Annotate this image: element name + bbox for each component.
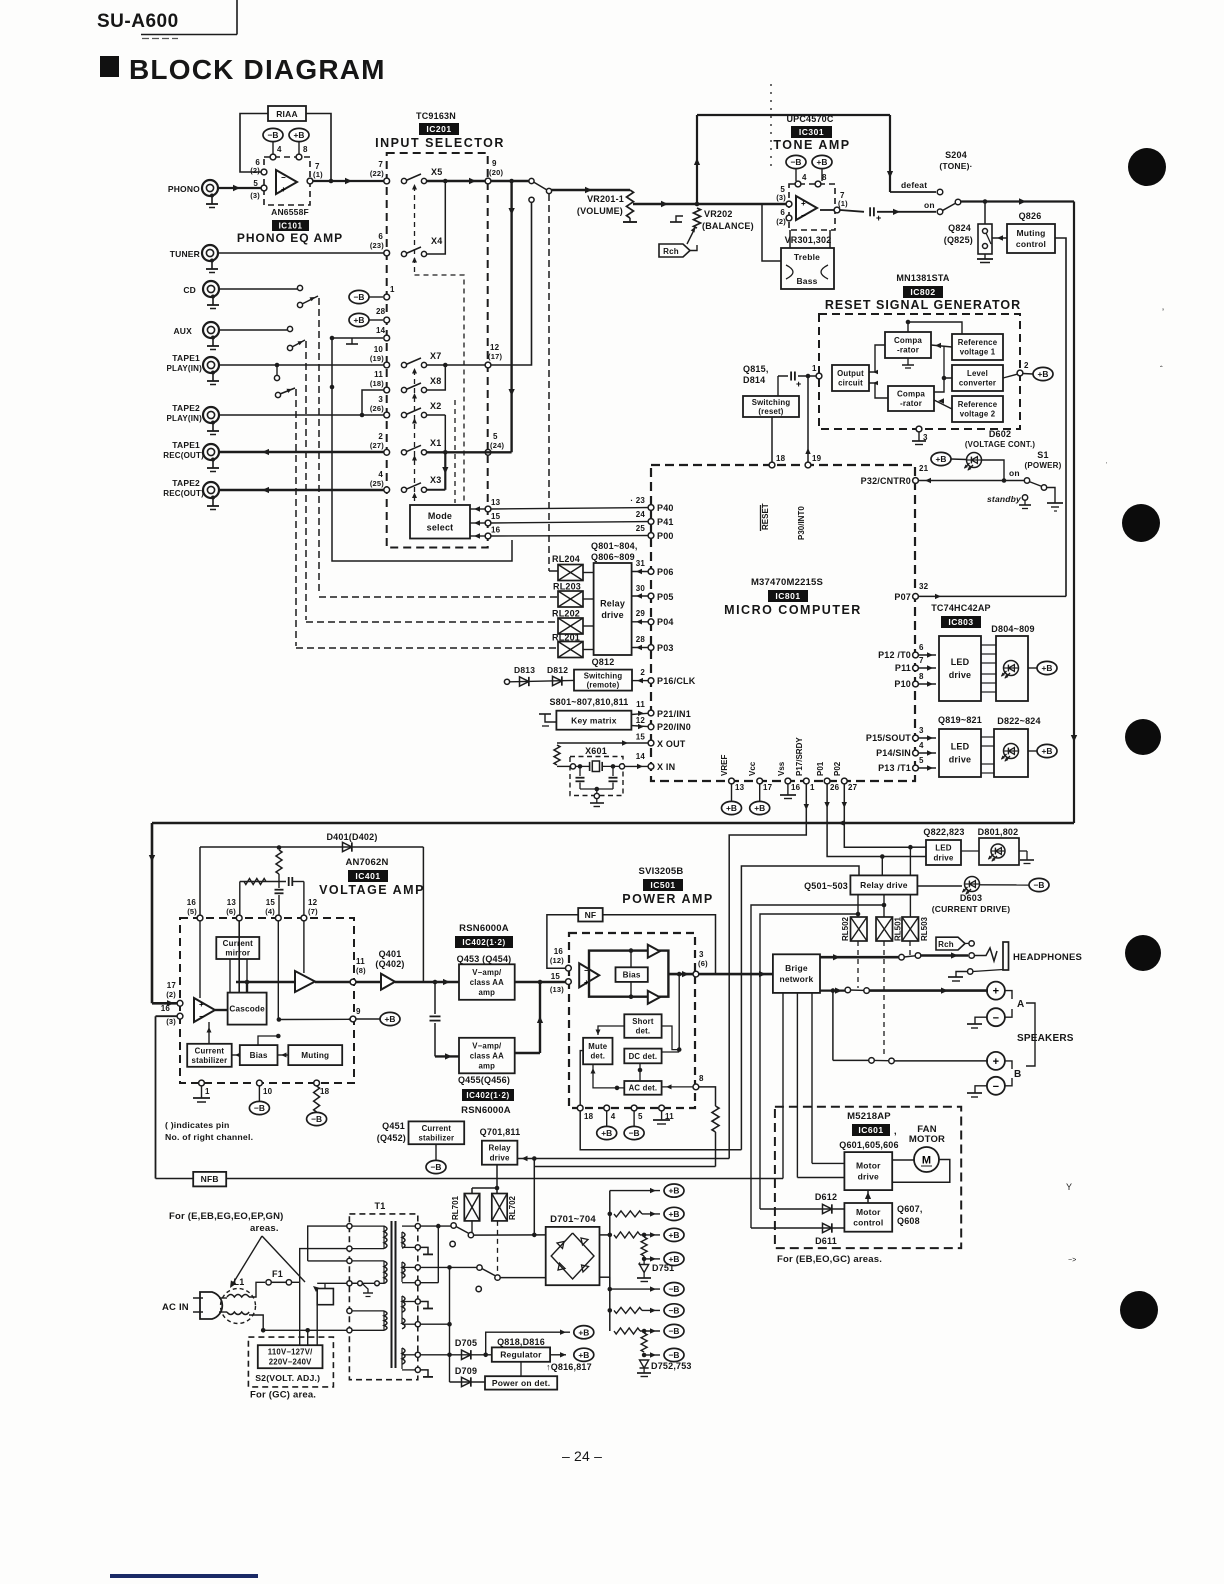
sec tap1 wire (420, 1225, 451, 1227)
NFB box (193, 1172, 226, 1187)
svg-text:control: control (853, 1218, 883, 1228)
svg-text:Q701,811: Q701,811 (480, 1127, 521, 1137)
Rch flag (headphones) (936, 937, 965, 950)
brige outputs down (782, 993, 784, 1179)
pin 7(22) (384, 178, 390, 184)
svg-text:9: 9 (492, 159, 497, 168)
B minus ground (975, 1086, 987, 1093)
ctl to drive arrow (867, 1190, 869, 1203)
NF wire left (547, 915, 578, 968)
svg-text:Power on det.: Power on det. (492, 1378, 550, 1388)
svg-text:DC det.: DC det. (629, 1052, 658, 1061)
wire muting to relay (992, 237, 1007, 239)
svg-text:Brige: Brige (785, 963, 808, 973)
D603 wire (917, 885, 962, 887)
svg-text:3: 3 (919, 726, 924, 735)
svg-text:select: select (427, 523, 454, 533)
svg-text:V−amp/: V−amp/ (472, 968, 502, 977)
svg-text:IC201: IC201 (426, 124, 451, 134)
svg-text:RSN6000A: RSN6000A (461, 1105, 511, 1116)
svg-text:P15/SOUT: P15/SOUT (866, 733, 911, 743)
rc drops (239, 882, 241, 917)
wire to Q824 relay (984, 202, 986, 225)
svg-text:8: 8 (699, 1074, 704, 1083)
svg-text:X IN: X IN (657, 762, 675, 772)
wire tap to regulator (486, 1354, 492, 1356)
svg-text:Reference: Reference (958, 400, 998, 409)
bridge rectifier box (546, 1227, 600, 1285)
relay RL503 (902, 917, 919, 941)
lower driver (648, 991, 660, 1004)
svg-text:18: 18 (776, 454, 786, 463)
svg-text:1: 1 (205, 1087, 210, 1096)
AC det left wire (593, 1064, 624, 1088)
svg-text:(26): (26) (370, 404, 384, 413)
rc row (240, 881, 286, 883)
svg-text:TONE AMP: TONE AMP (773, 138, 850, 152)
primary connects (352, 1225, 384, 1227)
svg-text:(1): (1) (838, 199, 848, 208)
wire tape1 play (219, 364, 386, 366)
monitor wire right and up to source switch (491, 202, 532, 365)
cd lever contact (297, 302, 302, 307)
volume wiper out (633, 203, 697, 205)
primary winding 1 (384, 1226, 387, 1330)
svg-text:(2): (2) (250, 166, 260, 175)
S2 dashed box (248, 1337, 333, 1387)
svg-text:M5218AP: M5218AP (847, 1111, 891, 1122)
svg-text:D804~809: D804~809 (991, 624, 1034, 634)
PHONO jack (202, 180, 218, 196)
svg-text:(2): (2) (776, 217, 786, 226)
svg-text:220V−240V: 220V−240V (269, 1358, 312, 1367)
wire X1 to bus (426, 451, 512, 453)
speaker A line (820, 989, 845, 991)
headphone line (820, 956, 899, 959)
regulator box (492, 1347, 550, 1361)
svg-text:Bias: Bias (623, 971, 641, 980)
bridge out - (600, 1276, 610, 1278)
pin 10 -B (257, 1080, 263, 1086)
svg-text:(CURRENT DRIVE): (CURRENT DRIVE) (932, 904, 1011, 914)
svg-text:+B: +B (294, 130, 305, 140)
pin 4(25) (384, 487, 390, 493)
svg-text:−B: −B (268, 130, 279, 140)
feedback top wire (200, 846, 423, 848)
wire switch to bus (960, 200, 1074, 202)
svg-text:Muting: Muting (1016, 228, 1045, 238)
svg-text:−B: −B (1034, 880, 1045, 890)
pin 6(2) (261, 169, 267, 175)
pin 7(1) tone out (834, 207, 840, 213)
fan motor circle (914, 1147, 939, 1172)
svg-text:Q815,: Q815, (743, 364, 769, 374)
P01 drop (827, 784, 882, 857)
svg-text:P05: P05 (657, 592, 674, 602)
solid bus to mode select (332, 338, 512, 561)
svg-text:5: 5 (638, 1112, 643, 1121)
svg-text:Q455(Q456): Q455(Q456) (458, 1075, 510, 1085)
svg-text:IC402(1·2): IC402(1·2) (462, 938, 505, 947)
svg-text:31: 31 (636, 559, 646, 568)
primary verticals to voltage box (299, 1282, 301, 1345)
svg-text:mirror: mirror (225, 949, 250, 958)
svg-text:D701~704: D701~704 (550, 1214, 596, 1225)
svg-text:X3: X3 (430, 475, 441, 485)
svg-text:Motor: Motor (856, 1161, 881, 1171)
svg-text:+B: +B (385, 1014, 396, 1024)
tone op-amp (796, 196, 817, 220)
switch X1 (401, 450, 406, 455)
svg-text:TC74HC42AP: TC74HC42AP (931, 603, 991, 613)
svg-text:X601: X601 (585, 746, 607, 756)
svg-text:11: 11 (374, 370, 383, 379)
bias stubs (630, 951, 632, 968)
svg-text:P07: P07 (894, 592, 911, 602)
svg-text:4: 4 (378, 470, 383, 479)
svg-text:13: 13 (227, 898, 237, 907)
primary feed 0 (308, 1226, 350, 1261)
svg-text:REC(OUT): REC(OUT) (163, 489, 204, 498)
balance wiper (687, 228, 695, 244)
node volume/defeat (695, 202, 700, 207)
svg-text:drive: drive (933, 853, 953, 862)
svg-text:PHONO: PHONO (168, 184, 200, 194)
cd bus dashed (318, 298, 320, 595)
svg-text:4: 4 (611, 1112, 616, 1121)
short det box (624, 1014, 661, 1038)
svg-text:voltage 2: voltage 2 (960, 410, 996, 419)
svg-text:P06: P06 (657, 567, 674, 577)
left bus down (151, 823, 154, 1003)
svg-text:(7): (7) (308, 907, 318, 916)
current stabilizer box (187, 1044, 232, 1067)
wire pin11 to Q401 (356, 981, 381, 983)
svg-text:16: 16 (187, 898, 197, 907)
svg-text:5: 5 (253, 179, 258, 188)
V-amp1 out (515, 981, 540, 984)
svg-text:MICRO COMPUTER: MICRO COMPUTER (724, 603, 862, 617)
treble bass box (781, 248, 834, 289)
RIAA feedback wire right (306, 114, 331, 182)
+B reset (1033, 367, 1053, 380)
pin 26 P01 (824, 778, 830, 784)
wire ref1 to comp1 (931, 345, 952, 347)
pin 5 bottom (631, 1105, 637, 1111)
svg-text:-rator: -rator (900, 399, 922, 408)
level converter box (952, 365, 1003, 391)
defeat riser (696, 115, 698, 204)
comp1 bottom stub ground (907, 358, 909, 365)
svg-text:Q818,D816: Q818,D816 (497, 1337, 545, 1347)
svg-text:TUNER: TUNER (170, 249, 200, 259)
svg-text:19: 19 (812, 454, 822, 463)
pin 15(4) (275, 915, 281, 921)
svg-text:network: network (779, 974, 813, 984)
actuator chain X7-X3 dashed (414, 370, 416, 503)
tone out wire (820, 209, 834, 211)
bias box (616, 967, 648, 982)
svg-text:D812: D812 (547, 665, 568, 675)
key matrix box (556, 711, 631, 730)
-B3 resistor (614, 1328, 640, 1334)
pin 32 P07 (913, 594, 919, 600)
svg-text:(3): (3) (776, 193, 786, 202)
svg-text:D752,753: D752,753 (651, 1361, 692, 1371)
svg-text:Output: Output (837, 369, 864, 378)
pointer arrow to L1 (232, 1236, 262, 1285)
motor drive box (844, 1152, 892, 1190)
svg-text:−: − (993, 1081, 999, 1093)
RL502 actuator dashed (857, 941, 859, 988)
actuator chain X5-X4 dashed (414, 186, 416, 275)
svg-text:Q453 (Q454): Q453 (Q454) (457, 954, 512, 964)
svg-text:(24): (24) (490, 441, 504, 450)
svg-text:(POWER): (POWER) (1025, 461, 1062, 470)
wire pin19 riser (807, 376, 809, 462)
svg-text:10: 10 (263, 1087, 273, 1096)
headphone contact (969, 953, 975, 959)
switch X3 (401, 487, 406, 492)
svg-text:,: , (894, 1126, 897, 1136)
RL203 bus dashed (319, 596, 558, 598)
Q401 out (395, 981, 459, 984)
svg-text:M: M (922, 1155, 931, 1167)
IC803 label (941, 616, 981, 628)
svg-text:Y: Y (1066, 1182, 1072, 1192)
treble bass input tap (762, 204, 781, 261)
wire L1 to F1 (249, 1282, 265, 1297)
crystal ground (580, 788, 613, 790)
svg-text:Q824: Q824 (948, 223, 971, 233)
pin13 inner drop (238, 921, 240, 993)
det drop (678, 974, 680, 1050)
wire to defeat contact (890, 191, 936, 193)
punch hole 2 (1122, 504, 1160, 542)
motor control box (844, 1203, 892, 1232)
svg-text:12: 12 (308, 898, 318, 907)
switch X7 (401, 362, 406, 367)
node riser (532, 1156, 537, 1161)
aux lever contact (287, 345, 292, 350)
svg-text:class AA: class AA (470, 1051, 504, 1060)
svg-text:+: + (199, 1000, 204, 1009)
node a (443, 179, 448, 184)
tap1-tap4 link (437, 1226, 439, 1283)
comp2 node right (934, 378, 952, 392)
wire tuner to selector (218, 252, 386, 254)
pin 3 IC802 ground (916, 426, 922, 432)
pin 1 P17/SRDY (803, 778, 809, 784)
node muting tap (983, 199, 988, 204)
sleeve ground (956, 972, 968, 978)
svg-text:D822~824: D822~824 (997, 716, 1040, 726)
svg-text:SU-A600: SU-A600 (97, 11, 179, 32)
RL201 bus dashed (296, 647, 558, 649)
svg-text:TAPE1: TAPE1 (172, 353, 200, 363)
primary taps (347, 1224, 352, 1229)
pin8 line to supply riser (534, 1166, 715, 1168)
LED symbol 2 (1004, 744, 1019, 759)
svg-text:RL702: RL702 (508, 1195, 517, 1220)
svg-text:P20/IN0: P20/IN0 (657, 722, 691, 732)
NF box (578, 908, 603, 922)
aux line end contact (287, 326, 292, 331)
muting box (288, 1045, 342, 1065)
svg-text:6: 6 (919, 643, 924, 652)
headphone switch (899, 954, 905, 960)
svg-text:drive: drive (490, 1154, 510, 1163)
punch hole 4 (1125, 935, 1161, 971)
pin 6 P12/T0 (913, 652, 919, 658)
svg-text:−: − (281, 173, 286, 182)
DC det box (624, 1049, 661, 1064)
buffer triangle (295, 971, 315, 992)
node X7/X8 junction (443, 363, 448, 368)
RL501 stub (883, 895, 885, 917)
svg-text:CD: CD (183, 285, 196, 295)
svg-text:D709: D709 (455, 1366, 477, 1376)
svg-text:RL203: RL203 (553, 582, 581, 592)
svg-text:S2(VOLT. ADJ.): S2(VOLT. ADJ.) (255, 1373, 320, 1383)
svg-text:IC801: IC801 (775, 591, 800, 601)
RL relay riser (533, 1159, 535, 1235)
svg-text:−B: −B (311, 1114, 322, 1124)
crystal resistor (554, 745, 560, 765)
pin18 route (580, 1111, 741, 1150)
svg-text:21: 21 (919, 464, 929, 473)
-B Q451 (435, 1144, 437, 1160)
pin 12(7) (301, 915, 307, 921)
-B supply tone (786, 155, 806, 168)
svg-text:−˃: −˃ (1068, 1257, 1077, 1264)
wire switching to cap (777, 376, 779, 396)
svg-text:RL204: RL204 (552, 554, 580, 564)
cd line end contact (297, 285, 302, 290)
svg-text:RL503: RL503 (920, 916, 929, 941)
switching reset box (743, 396, 799, 417)
wire X4 to X5 node (426, 181, 445, 254)
NF wire right (603, 915, 716, 974)
+B pin9 rail (279, 1018, 350, 1020)
svg-text:3: 3 (378, 395, 383, 404)
wire X8 up to X7 node (426, 367, 445, 390)
pin 12(17) (485, 362, 491, 368)
svg-text:D801,802: D801,802 (978, 827, 1019, 837)
svg-text:12: 12 (636, 716, 646, 725)
mute det box (583, 1038, 612, 1065)
speaker A wire (869, 989, 988, 992)
wire cap to pin1 (798, 375, 816, 377)
wire op-amp to selector (313, 180, 386, 182)
pin 14 X IN (648, 764, 654, 770)
pin 7(1) output (307, 178, 313, 184)
svg-text:+B: +B (1042, 663, 1053, 673)
svg-text:1: 1 (390, 285, 395, 294)
wire P04 to relay drive (632, 621, 648, 623)
headphone spring (974, 948, 997, 961)
node tape2 to X8 (360, 413, 365, 418)
pin 11 P21/IN1 (648, 710, 654, 716)
P17/SRDY drop (729, 784, 806, 1159)
regulator riser (449, 1267, 451, 1382)
pin 2 IC802 (1017, 370, 1023, 376)
pin 1 IC802 (816, 373, 822, 379)
svg-text:(23): (23) (370, 241, 384, 250)
pin 2(27) (384, 449, 390, 455)
balance ground hook (676, 216, 683, 222)
svg-text:X8: X8 (430, 376, 441, 386)
IC301 label (791, 126, 832, 138)
svg-text:(4): (4) (265, 907, 275, 916)
bridge feed 1 (474, 1234, 546, 1236)
svg-text:(3): (3) (166, 1017, 176, 1026)
speaker B plus terminal (987, 1052, 1005, 1070)
svg-text:6: 6 (780, 208, 785, 217)
wire P03 to relay drive (632, 647, 648, 649)
IC801 dashed box (651, 465, 915, 781)
svg-text:18: 18 (584, 1112, 594, 1121)
svg-text:5: 5 (493, 432, 498, 441)
feedback left drop (199, 847, 201, 916)
defeat contact (937, 189, 943, 195)
svg-text:9: 9 (356, 1007, 361, 1016)
mode select pin 16 wire (485, 533, 491, 539)
fb resistor (276, 850, 282, 874)
relay drive feeds (881, 857, 883, 876)
diode D709 (450, 1381, 486, 1383)
mode select pin 15 wire (485, 520, 491, 526)
svg-text:(6): (6) (226, 907, 236, 916)
LED D603 (965, 877, 980, 892)
svg-text:UPC4570C: UPC4570C (786, 114, 833, 124)
svg-text:14: 14 (636, 752, 646, 761)
short det right wire (662, 1026, 680, 1050)
svg-text:Muting: Muting (301, 1051, 329, 1060)
svg-text:ˆ: ˆ (1160, 365, 1163, 374)
svg-text:P14/SIN: P14/SIN (876, 748, 911, 758)
+B LED1 (1037, 661, 1057, 674)
tape2 monitor lever contact (275, 392, 280, 397)
primary feed 1 (300, 1249, 350, 1283)
svg-text:LED: LED (935, 843, 952, 852)
bridge out2 to motor drive (797, 1177, 844, 1179)
svg-text:Compa: Compa (894, 336, 922, 345)
svg-text:+B: +B (669, 1186, 680, 1196)
pin 15(13) (566, 979, 572, 985)
svg-text:drive: drive (949, 670, 972, 680)
pin 8 (296, 154, 302, 160)
tone on/off switch (937, 209, 943, 215)
svg-text:17: 17 (167, 981, 177, 990)
svg-text:AN7062N: AN7062N (345, 857, 388, 868)
svg-text:X OUT: X OUT (657, 739, 686, 749)
wire X3 contact (426, 489, 445, 491)
svg-text:AN6558F: AN6558F (271, 207, 309, 217)
svg-text:Current: Current (195, 1046, 225, 1055)
RL701 switch (451, 1223, 456, 1228)
svg-text:P13 /T1: P13 /T1 (878, 763, 911, 773)
RL501 actuator dashed (883, 941, 885, 1058)
to power amp (540, 981, 568, 984)
node P01/RL501 (880, 854, 885, 859)
wire drive to motor (892, 1159, 914, 1161)
svg-text:amp: amp (479, 988, 496, 997)
svg-text:−B: −B (354, 292, 365, 302)
svg-text:24: 24 (636, 510, 646, 519)
pin 13(6) (236, 915, 242, 921)
svg-text:B: B (1014, 1069, 1021, 1080)
